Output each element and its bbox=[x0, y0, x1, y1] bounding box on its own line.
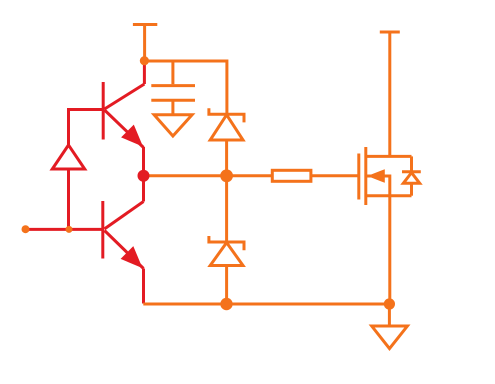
wire: C1 to ground G1 bbox=[171, 102, 174, 115]
mosfet M1 source stub (bottom) bbox=[366, 194, 412, 197]
junction: D1/base-wire node bbox=[66, 226, 73, 233]
transistor Q1 (upper NPN) base bar bbox=[102, 82, 105, 140]
power flag P2 (top-right T bar) bbox=[380, 31, 400, 34]
wire: node A right to zener D2 column bbox=[144, 61, 227, 114]
wire: M1 source down to node E bbox=[388, 196, 391, 304]
transistor Q1 emitter arrow bbox=[121, 125, 143, 147]
resistor R1 body bbox=[272, 170, 311, 181]
junction node D bbox=[220, 298, 232, 310]
wire: D1 anode down to base junction bbox=[67, 169, 70, 229]
wire: node B down to Q2 collector corner bbox=[142, 176, 145, 202]
wire: Q1 collector up to node A bbox=[143, 61, 146, 84]
zener D2 triangle bbox=[210, 115, 243, 140]
wire: node B to resistor R1 bbox=[144, 174, 272, 177]
transistor Q2 emitter diagonal bbox=[105, 231, 144, 269]
capacitor C1 bottom plate bbox=[151, 99, 195, 102]
wire: input to Q2 base bbox=[26, 228, 102, 231]
wire: Q2 emitter down to bottom rail bbox=[142, 269, 145, 304]
transistor Q2 collector diagonal bbox=[105, 202, 144, 229]
wire: P1 down to node A bbox=[143, 25, 146, 61]
junction node B (red dot) bbox=[138, 170, 150, 182]
transistor Q2 emitter arrow bbox=[121, 246, 143, 268]
mosfet M1 channel bar bbox=[364, 147, 367, 205]
wire: Q1 base corner to diode D1 cathode bbox=[69, 110, 104, 146]
transistor Q1 collector diagonal bbox=[105, 84, 145, 109]
ground G1 (under capacitor) bbox=[154, 115, 192, 136]
zener D2 cathode bar with hooks bbox=[209, 108, 244, 122]
power flag P1 (top-left T bar) bbox=[133, 23, 157, 26]
mosfet M1 bulk line with arrow bbox=[366, 176, 390, 196]
wire: node E down to ground G2 bbox=[388, 304, 391, 326]
capacitor C1 stem bbox=[171, 61, 174, 84]
terminal IN (input node dot) bbox=[22, 225, 30, 233]
junction node C bbox=[220, 169, 233, 182]
wire: P2 down to M1 drain bbox=[388, 32, 391, 156]
wire: D3 anode down to node D bbox=[225, 266, 228, 305]
ground G2 (bottom right) bbox=[372, 326, 408, 349]
zener D3 cathode bar with hooks bbox=[209, 236, 244, 250]
mosfet M1 body diode cathode bar bbox=[402, 170, 421, 173]
wire: R1 to M1 gate bbox=[311, 174, 359, 177]
mosfet M1 drain stub (top) bbox=[366, 155, 412, 158]
wire: D2 anode down to node C bbox=[225, 140, 228, 176]
mosfet M1 body diode triangle bbox=[403, 173, 419, 184]
transistor Q1 emitter diagonal bbox=[105, 110, 144, 148]
mosfet M1 bulk arrow head bbox=[367, 169, 385, 183]
junction node A bbox=[140, 56, 149, 65]
junction node E bbox=[384, 298, 395, 309]
diode D1 (red, pointing up) bbox=[52, 145, 84, 169]
capacitor C1 top plate bbox=[151, 84, 195, 87]
transistor Q2 (lower NPN) base bar bbox=[101, 201, 104, 259]
mosfet M1 gate bar bbox=[357, 154, 360, 200]
wire: Q1 emitter down to node B bbox=[142, 147, 145, 176]
zener D3 triangle bbox=[210, 243, 243, 266]
bottom rail wire bbox=[143, 303, 389, 306]
wire: node C down to zener D3 bbox=[225, 176, 228, 242]
mosfet M1 body-diode right vertical (cathode side) bbox=[410, 156, 413, 171]
mosfet M1 body-diode right vertical (anode side) bbox=[410, 183, 413, 195]
